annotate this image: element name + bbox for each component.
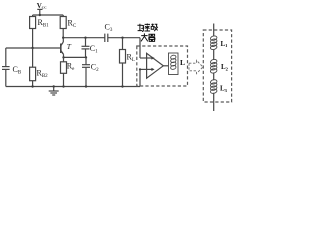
inductor L3 [210, 79, 217, 94]
capacitor CB [2, 48, 10, 87]
resistor RB2 [30, 48, 36, 87]
capacitor C1 [82, 38, 90, 58]
node: C1 tap [84, 37, 86, 39]
node: collector junction [62, 37, 64, 39]
wire: L1-L2 [213, 50, 215, 60]
op-amp U1 (amplifier triangle) [147, 53, 164, 78]
transistor T [61, 38, 64, 58]
wire: L2-L3 [213, 73, 215, 81]
svg-text:Re: Re [67, 62, 75, 73]
wire: emitter line [64, 56, 87, 58]
svg-text:C3: C3 [105, 23, 113, 34]
svg-text:RC: RC [68, 19, 77, 30]
resistor Re [61, 57, 67, 86]
svg-text:RB1: RB1 [38, 18, 50, 29]
inductor L (voice coil with frame) [169, 53, 179, 75]
node: ground-rail [53, 85, 55, 87]
capacitor C3 [105, 34, 140, 42]
svg-text:C1: C1 [90, 44, 98, 55]
resistor RB1 [30, 15, 36, 48]
svg-text:RB2: RB2 [37, 69, 49, 80]
svg-text:RL: RL [127, 53, 135, 64]
node: rail-Vcc junction [39, 14, 41, 16]
wire: base line [6, 47, 61, 49]
svg-text:L1: L1 [221, 40, 229, 48]
resistor RL [120, 38, 126, 87]
Vcc supply terminal [37, 9, 42, 15]
wire: amp output [163, 65, 168, 67]
svg-text:CB: CB [13, 65, 22, 76]
node: Re-rail [62, 85, 64, 87]
capacitor C2 [82, 57, 90, 86]
node: RL tap [121, 37, 123, 39]
power amplifier dashed box [137, 46, 188, 86]
text: 大器 (power amp label line 2) [141, 33, 156, 41]
svg-text:C2: C2 [91, 63, 99, 74]
node: base junction [31, 47, 33, 49]
svg-text:L2: L2 [221, 63, 229, 71]
svg-text:T: T [67, 42, 72, 51]
wire: amp input 2 [139, 68, 155, 87]
node: RB2-rail [31, 85, 33, 87]
wire: coil feed bottom [213, 93, 215, 111]
wire: amp input 1 [140, 38, 155, 60]
inductor L1 [210, 35, 217, 50]
text: 功率放 (power amp label line 1) [137, 24, 157, 32]
coil assembly dashed box [203, 30, 231, 102]
wire: collector line [63, 37, 105, 39]
wire: bottom ground rail [6, 86, 140, 88]
resistor Rc [60, 15, 66, 38]
arrow: magnification callout [189, 60, 203, 73]
svg-text:L3: L3 [220, 85, 228, 93]
node: emitter junction [62, 56, 64, 58]
wire: top supply rail [33, 14, 64, 16]
node: C1/C2 junction [85, 56, 87, 58]
svg-text:L: L [180, 58, 185, 67]
wire: coil feed top [213, 24, 215, 37]
ground [49, 87, 59, 96]
inductor L2 [210, 59, 217, 74]
svg-text:VCC: VCC [37, 2, 47, 10]
node: RL-rail [121, 85, 123, 87]
node: C2-rail [85, 85, 87, 87]
